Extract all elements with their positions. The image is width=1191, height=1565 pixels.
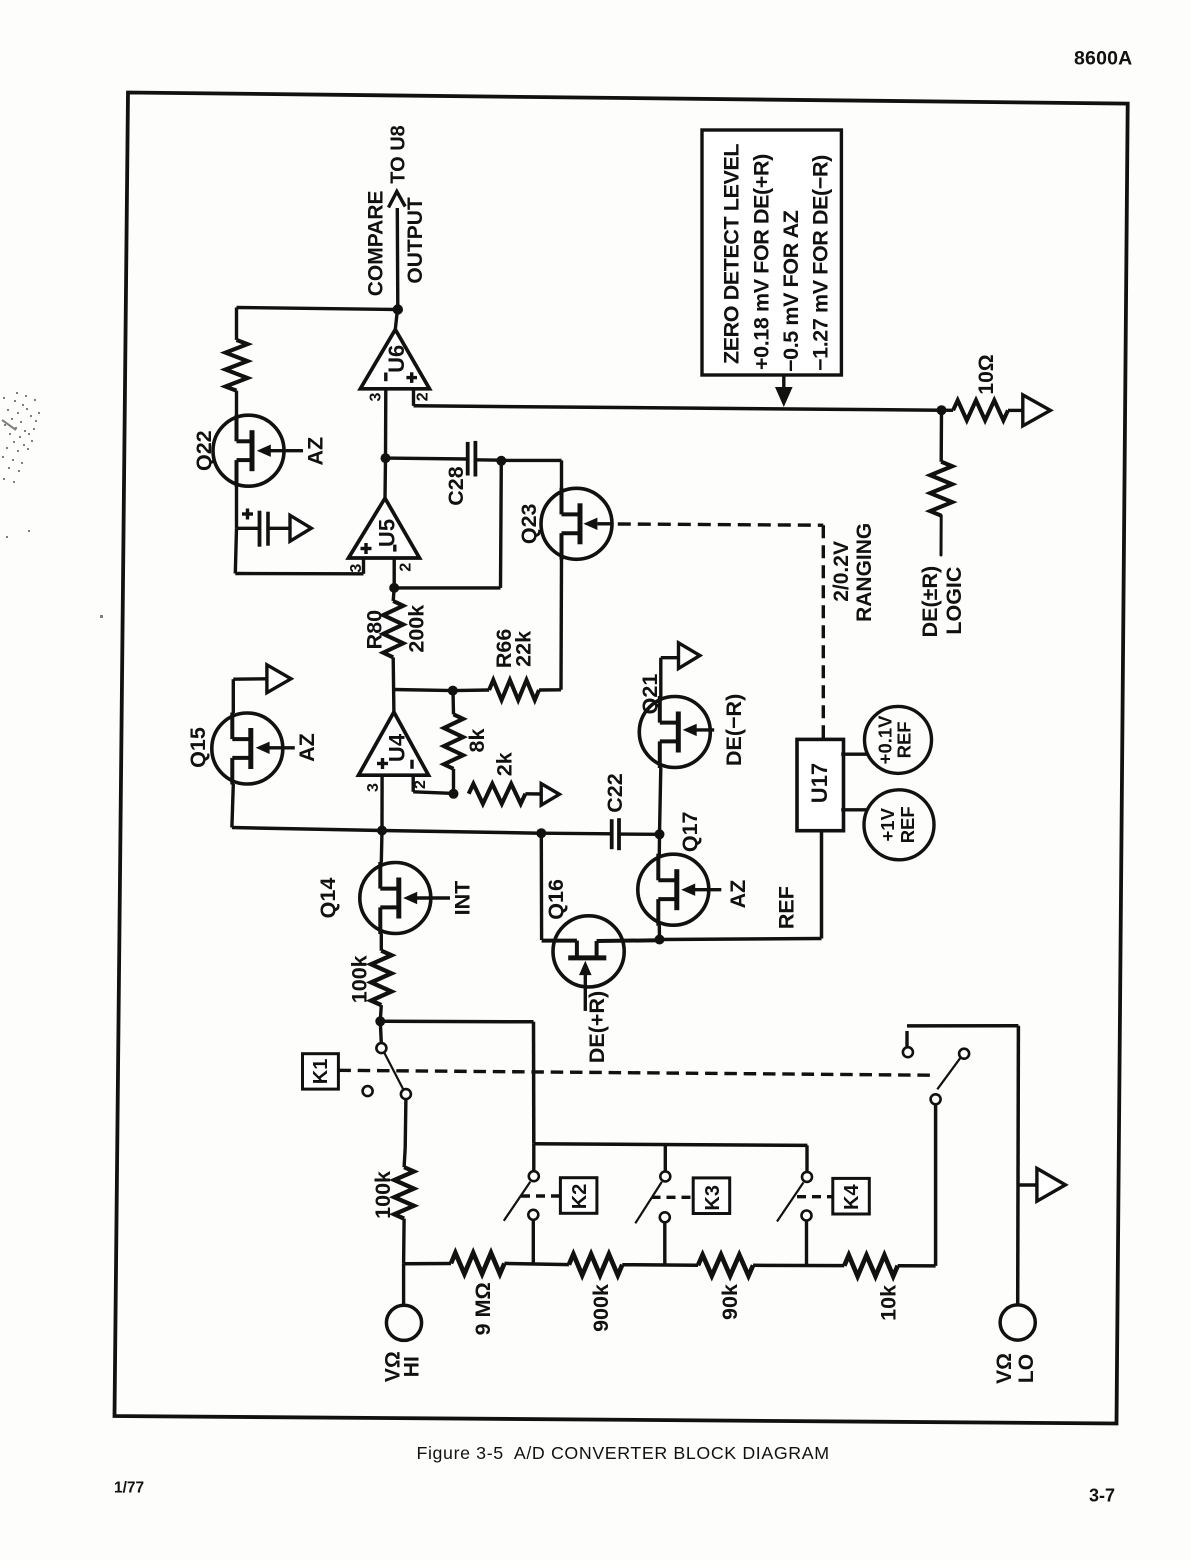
Q22 gate arrow [257,445,303,457]
wire Q17 source [658,925,662,939]
page header text 8600A [1074,48,1132,70]
svg-text:U5: U5 [375,519,400,547]
svg-text:Q16: Q16 [544,879,568,920]
node C28 right [496,456,506,466]
node U4/Q14 bus [377,826,387,836]
transistor Q23 [541,488,612,560]
label Q14 [316,878,340,919]
svg-text:AZ: AZ [295,733,319,762]
relay K3 blade [635,1182,662,1223]
wire U6 output to node [395,310,397,330]
svg-text:DE(±R): DE(±R) [918,566,942,638]
label OUTPUT [404,197,427,284]
label U17 [807,763,832,803]
relay K3 upper contact [660,1145,670,1181]
svg-text:AZ: AZ [726,880,750,909]
box text line3 [779,210,803,372]
label 10k [877,1285,901,1321]
label AZ (Q15) [295,733,319,762]
svg-text:K1: K1 [310,1059,332,1085]
resistor 10k [844,1255,897,1276]
op-amp U5 [349,498,420,558]
node Q21/Q17 [655,829,665,839]
Q21 gate arrow [683,724,715,736]
resistor R66 [489,680,539,700]
wire VΩ LO vertical [1016,1026,1020,1305]
svg-text:REF: REF [897,806,918,843]
ref circle +1V [864,790,934,860]
svg-text:C28: C28 [444,466,468,505]
wire Q14 drain from bus [380,831,384,863]
wire U5 output to node [383,458,387,498]
label Q17 [678,811,702,852]
wire bus to C22 [541,832,611,836]
label RANGING [853,523,876,622]
wire K5 lower to chain [934,1104,938,1266]
svg-text:K4: K4 [841,1184,863,1210]
K1 contact lower [401,1089,411,1099]
wire 100k to K1 node [380,1005,381,1021]
box text line1 [720,144,744,364]
label LO [1015,1354,1038,1383]
U4 pin 2 label [412,780,429,789]
wire feedback left down [235,308,238,340]
U5 pin 2 label [398,563,415,572]
svg-text:HI: HI [401,1356,424,1377]
wire LO triangle stub [1018,1183,1037,1186]
node 2k/8k junction [449,789,459,799]
relay K2 dashes [521,1194,560,1197]
svg-text:REF: REF [775,886,799,929]
svg-text:K2: K2 [569,1184,591,1210]
label HI [401,1356,424,1377]
svg-text:Q17: Q17 [678,811,702,852]
svg-text:1/77: 1/77 [114,1480,144,1497]
wire C28 node down [499,461,503,588]
wire REF node to U17 [660,831,822,939]
svg-text:AZ: AZ [304,437,328,466]
label TO U8 [387,125,409,184]
label COMPARE [365,191,388,297]
relay K4 upper contact [802,1145,812,1182]
svg-text:Q23: Q23 [517,503,541,544]
wire C22 to node [619,832,660,836]
relay K4 box [833,1178,870,1214]
svg-text:10k: 10k [877,1285,901,1321]
node U6 pin3 / U5 out [381,453,391,463]
common triangle (Q22 cap) [290,515,311,541]
label 200k [405,605,429,653]
svg-text:U4: U4 [385,733,410,762]
wire 100k to VOhm HI [402,1219,406,1264]
label K4 [841,1184,863,1210]
figure caption [417,1443,830,1463]
svg-text:8600A: 8600A [1074,48,1132,70]
wire U4 pin2 stub [413,775,453,793]
label 10 ohm [975,354,998,394]
capacitor AZ reference (+) [260,511,269,547]
compare output open arrowhead [389,192,406,208]
wire triangle to Q15 drain [233,679,267,713]
label 22k [512,631,536,667]
transistor Q22 [213,415,284,487]
U6 pin 2 label [415,392,432,401]
svg-text:200k: 200k [405,605,429,653]
box text line2 [750,154,774,370]
wire to U5 pin2 node [394,586,500,589]
wire cap to common triangle [268,527,290,530]
wire Q22 source rail to U5 pin3 [235,528,363,574]
svg-text:TO U8: TO U8 [387,125,409,184]
svg-text:INT: INT [451,881,475,916]
K5 contact left [903,1047,913,1057]
wire Q14 source down [380,934,383,951]
dashed net 2/0.2V ranging [618,524,824,738]
box text line4 [809,155,833,371]
wire K1 to 100k [404,1099,406,1167]
resistor 900k [569,1254,622,1275]
svg-text:2: 2 [415,392,432,401]
resistor 9M [451,1253,504,1274]
label AZ (Q17) [726,880,750,909]
relay K3 box [693,1178,730,1214]
wire main bus mid [382,831,541,834]
svg-text:2/0.2V: 2/0.2V [830,541,853,602]
label C22 [603,773,627,812]
wire Q16 drain down [540,833,544,940]
label 900k [589,1284,613,1332]
K5 contact right [959,1049,969,1059]
svg-text:ZERO DETECT LEVEL: ZERO DETECT LEVEL [720,144,744,364]
page border frame [115,93,1128,1424]
svg-text:−1.27 mV FOR DE(−R): −1.27 mV FOR DE(−R) [809,155,833,371]
wire Q17 drain [658,834,662,855]
K1 contact NC [363,1086,373,1096]
svg-text:LO: LO [1015,1354,1038,1383]
wire Q21 source down [660,768,661,835]
label C28 [444,466,468,505]
svg-text:22k: 22k [512,631,536,667]
relay K4 dashes [797,1195,833,1198]
zero detect arrow [775,375,793,407]
wire R66 to Q23 source [539,688,561,692]
wire U5 pin3 stub [362,558,365,574]
resistor R80 [383,601,403,657]
op-amp U4 [359,712,429,775]
resistor 10 ohm [953,400,1008,420]
common triangle (Q21) [679,643,700,669]
svg-text:VΩ: VΩ [993,1353,1016,1384]
relay K4 blade [777,1182,804,1221]
label DE(&#8722;R) (Q21 gate) [722,694,746,766]
resistor 2k [469,784,526,804]
Q16 gate arrow [579,961,592,1011]
svg-text:+1V: +1V [877,807,898,841]
footer 1/77 [114,1480,144,1497]
wire U17 to +1V REF [841,808,867,811]
svg-text:COMPARE: COMPARE [365,191,388,297]
relay K2 upper contact [529,1144,539,1181]
K1 switch blade [384,1053,403,1090]
wire chain 2 [504,1263,569,1264]
Q23 gate arrow [583,518,610,530]
wire node to C28 [386,456,468,460]
svg-text:100k: 100k [371,1171,395,1219]
label AZ (Q22) [304,437,328,466]
ic U17 box [797,739,844,830]
svg-text:900k: 900k [589,1284,613,1332]
label DE(+R) (Q16 gate) [585,991,609,1063]
wire R80 to U4 apex [392,657,396,712]
label DE(±R) [918,566,942,638]
wire 2k to triangle [525,792,541,796]
wire U5 pin2 stub [393,558,396,588]
relay K3 dashes [652,1196,694,1199]
wire U6 pin2 stub [412,389,415,406]
wire chain 4 [753,1264,844,1268]
wire C28 to node [475,458,501,462]
label 100k (integrator) [348,955,372,1003]
label R80 [363,610,387,649]
wire C28 node to Q23 drain [501,459,561,462]
K5 blade [937,1057,961,1089]
svg-text:DE(−R): DE(−R) [722,694,746,766]
relay K2 lower contact [528,1210,538,1264]
svg-text:3: 3 [368,392,385,401]
svg-text:2k: 2k [493,752,517,776]
node zero detect [937,405,947,415]
wire Q22 source to cap [237,527,260,530]
wire K1 node to bus [380,1021,534,1144]
label K1 [310,1059,332,1085]
relay K4 lower contact [802,1211,812,1265]
node U5 pin2 [389,583,399,593]
svg-text:RANGING: RANGING [853,523,876,622]
resistor 8k [444,714,463,768]
label LOGIC [942,567,966,635]
node Q16 drain bus [536,828,546,838]
svg-text:10Ω: 10Ω [975,354,998,394]
svg-text:+0.18 mV FOR DE(+R): +0.18 mV FOR DE(+R) [750,154,774,370]
svg-text:8k: 8k [465,729,489,753]
svg-text:−0.5 mV FOR AZ: −0.5 mV FOR AZ [779,210,803,372]
label 8k [465,729,489,753]
svg-text:K3: K3 [702,1185,724,1211]
node Q17 source / REF [655,935,665,945]
label VΩ (HI) [382,1351,405,1382]
label Q22 [192,430,216,471]
svg-text:3-7: 3-7 [1089,1486,1115,1506]
label + (cap polarity) [242,509,253,520]
transistor Q16 [542,916,660,987]
label Q15 [186,727,210,768]
K1 contact upper [376,1021,386,1053]
svg-text:3: 3 [365,783,382,792]
label K2 [569,1184,591,1210]
footer 3-7 [1089,1486,1115,1506]
label 90k [718,1284,742,1320]
resistor DE logic [930,462,952,516]
capacitor C28 [468,441,476,477]
relay K2 blade [504,1182,531,1221]
Q15 gate arrow [256,742,295,754]
label K3 [702,1185,724,1211]
wire chain 3 [622,1263,698,1267]
label 2k [493,752,517,776]
op-amp U6 [360,330,429,389]
label VΩ (LO) [993,1353,1016,1384]
dashed net K1 [338,1070,930,1075]
svg-text:DE(+R): DE(+R) [585,991,609,1063]
svg-text:U17: U17 [807,763,832,803]
U5 pin 3 label [348,564,365,573]
label Q16 [544,879,568,920]
wire compare output vertical [396,208,400,310]
node compare junction [393,304,403,314]
svg-text:Q15: Q15 [186,727,210,768]
relay K3 lower contact [660,1212,670,1266]
svg-text:U6: U6 [384,345,409,373]
wire Q22 source down [235,486,238,528]
wire K5 top [907,1026,1018,1053]
relay K1 box [303,1054,339,1089]
wire Q23 source down to R66 [559,559,563,690]
transistor Q14 [360,862,431,934]
svg-text:Q21: Q21 [638,674,662,715]
relay bus wire [534,1144,808,1146]
transistor Q15 [212,713,283,785]
label REF [775,886,799,929]
transistor Q21 [639,696,710,768]
resistor 100k (integrator) [371,951,391,1005]
node 8k top [448,686,458,696]
common triangle (LO) [1037,1168,1066,1201]
wire U4 pin3 [380,775,384,830]
resistor 90k [698,1255,753,1276]
transistor Q17 [638,854,709,926]
wire U5 node to R80 [393,588,394,601]
svg-text:Figure 3-5 A/D CONVERTER BLOC: Figure 3-5 A/D CONVERTER BLOCK DIAGRAM [417,1443,830,1463]
resistor feedback (U6) [226,340,248,391]
U4 pin 3 label [365,783,382,792]
terminal VΩ HI [386,1264,421,1341]
svg-text:OUTPUT: OUTPUT [404,197,427,284]
svg-text:C22: C22 [603,773,627,812]
wire 10ohm to triangle [942,409,1023,413]
Q17 gate arrow [681,884,721,896]
wire feedback top [237,308,398,310]
label Q23 [517,503,541,544]
wire 8k ends [451,691,455,794]
common triangle (2k) [541,784,559,806]
wire main bus left [232,828,382,831]
resistor 100k (input) [394,1167,414,1218]
K5 contact lower [931,1094,941,1104]
Q14 gate arrow [403,892,450,904]
terminal VΩ LO [1000,1305,1035,1340]
wire U6 pin3 [384,389,388,458]
wire branch to 8k node [394,690,453,691]
U6 pin 3 label [368,392,385,401]
wire U17 to +0.1V REF [841,753,866,756]
svg-text:2: 2 [398,563,415,572]
svg-text:LOGIC: LOGIC [942,567,966,635]
scan noise marks [2,300,103,618]
svg-text:90k: 90k [718,1284,742,1320]
label R66 [492,629,516,668]
ref circle +0.1V [865,706,932,773]
label 2/0.2V [830,541,853,602]
svg-text:+0.1V: +0.1V [875,715,896,765]
svg-text:100k: 100k [348,955,372,1003]
relay K2 box [560,1178,597,1214]
wire resistor to Q22 [235,391,238,417]
label Q21 [638,674,662,715]
wire chain 5 [898,1264,936,1268]
svg-text:REF: REF [894,721,915,758]
wire chain 1 [404,1262,451,1266]
wire down to DE logic resistor [940,410,944,462]
wire Q15 source down [232,784,233,828]
capacitor C22 [612,818,619,850]
label INT [451,881,475,916]
wire DE logic lead [940,516,943,555]
node K1 top [375,1016,385,1026]
common triangle (10 ohm out) [1023,395,1051,426]
svg-text:Q14: Q14 [316,878,340,919]
label 9 MΩ [471,1282,495,1335]
wire to R66 [453,688,489,692]
svg-text:9 MΩ: 9 MΩ [471,1282,495,1335]
svg-text:Q22: Q22 [192,430,216,471]
common triangle (Q15) [267,665,291,693]
annotation box zero detect [702,130,841,375]
wire Q23 drain [560,460,563,488]
svg-text:R80: R80 [363,610,387,649]
label 100k (input) [371,1171,395,1219]
wire Q21 drain to triangle [661,658,679,697]
wire U6 pin2 to zero-detect node [414,406,942,410]
